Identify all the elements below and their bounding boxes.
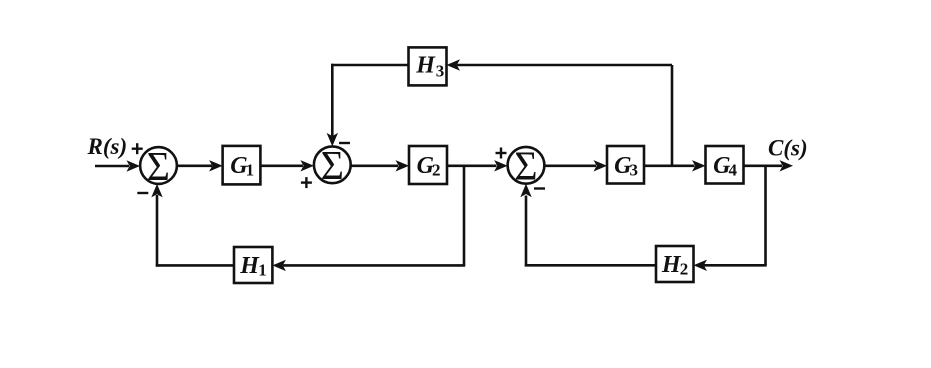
arrowhead output C(s) bbox=[780, 160, 794, 171]
block G3 bbox=[607, 146, 644, 184]
svg-text:H: H bbox=[239, 253, 260, 279]
arrowhead into H2 bbox=[694, 260, 708, 271]
arrowhead into G1 bbox=[209, 160, 223, 171]
wire H1 tap vertical bbox=[463, 166, 466, 266]
arrowhead into summer3 bbox=[494, 160, 508, 171]
wire G1 to summer2 bbox=[261, 165, 304, 168]
wire G3 to G4 bbox=[644, 165, 695, 168]
svg-text:2: 2 bbox=[680, 259, 689, 278]
wire summer2 to G2 bbox=[351, 165, 398, 168]
svg-text:Σ: Σ bbox=[147, 143, 170, 189]
wire up into summer1 bbox=[156, 195, 159, 267]
svg-text:1: 1 bbox=[258, 260, 267, 279]
arrowhead up into summer1 bottom bbox=[151, 184, 162, 198]
block G4 bbox=[706, 146, 744, 184]
arrowhead up into summer3 bottom bbox=[520, 184, 531, 198]
block H1 bbox=[234, 247, 272, 283]
wire H2 output left bbox=[525, 264, 656, 267]
wire H2 tap vertical bbox=[764, 166, 767, 265]
arrowhead into G2 bbox=[396, 160, 410, 171]
block H3 bbox=[409, 47, 447, 85]
svg-text:3: 3 bbox=[630, 160, 639, 179]
svg-text:1: 1 bbox=[246, 161, 255, 180]
svg-text:H: H bbox=[661, 252, 682, 278]
wire H1 bottom horizontal bbox=[283, 264, 465, 267]
sign minus summer2 top-right bbox=[339, 142, 350, 144]
arrowhead into H1 bbox=[272, 260, 286, 271]
block G2 bbox=[409, 146, 447, 184]
arrowhead into G3 bbox=[594, 160, 608, 171]
svg-text:2: 2 bbox=[432, 161, 441, 180]
wire summer1 to G1 bbox=[177, 165, 212, 168]
sign minus summer3 bottom-right bbox=[534, 187, 545, 189]
wire H3 tap vertical bbox=[671, 65, 674, 166]
svg-text:Σ: Σ bbox=[514, 143, 537, 189]
block G1 bbox=[223, 146, 261, 185]
svg-text:C(s): C(s) bbox=[768, 135, 808, 160]
wire H3 output left bbox=[331, 64, 408, 67]
svg-text:3: 3 bbox=[436, 61, 445, 80]
wire H2 bottom horizontal bbox=[704, 264, 767, 267]
wire G4 to output C(s) bbox=[744, 165, 783, 168]
wire H3 top horizontal bbox=[457, 64, 672, 67]
wire up into summer3 bbox=[525, 196, 528, 267]
sign minus below summer1 bbox=[137, 192, 148, 194]
svg-text:R(s): R(s) bbox=[87, 134, 128, 159]
summer 3 bbox=[508, 143, 545, 189]
wire G2 to summer3 bbox=[447, 165, 497, 168]
wire H1 output left bbox=[156, 264, 234, 267]
sign plus summer3 top-left bbox=[496, 148, 507, 159]
wire input R(s) to summer1 bbox=[95, 165, 129, 168]
summer 1 bbox=[140, 143, 177, 189]
sign plus after R(s) bbox=[132, 143, 143, 154]
svg-text:Σ: Σ bbox=[321, 143, 344, 189]
wire down into summer2 bbox=[331, 64, 334, 136]
arrowhead into H3 bbox=[447, 59, 461, 70]
arrowhead into G4 bbox=[692, 160, 706, 171]
arrowhead into summer1 bbox=[127, 160, 141, 171]
summer 2 bbox=[314, 143, 351, 189]
block H2 bbox=[656, 246, 694, 282]
sign plus summer2 lower-left bbox=[301, 177, 312, 188]
svg-text:H: H bbox=[415, 52, 436, 78]
svg-text:4: 4 bbox=[729, 160, 738, 179]
arrowhead down into summer2 top bbox=[327, 133, 338, 147]
arrowhead into summer2 left bbox=[300, 160, 314, 171]
wire summer3 to G3 bbox=[545, 165, 597, 168]
